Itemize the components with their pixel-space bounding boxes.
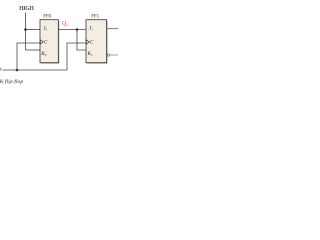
junction dot Q0/K1 branch <box>76 28 79 31</box>
wire HIGH vertical drop to J0/K0 <box>25 13 27 51</box>
wire CLK bottom line <box>3 69 68 71</box>
svg-text:-K flip-flop: -K flip-flop <box>0 78 23 85</box>
flip-flop FF1 body <box>86 20 107 63</box>
wire Q1-bar output <box>110 54 118 56</box>
flip-flop FF0 body <box>40 20 58 63</box>
flip-flop FF0 shadow <box>41 21 59 64</box>
svg-text:FF1: FF1 <box>91 14 99 20</box>
wire J0 input <box>26 29 41 31</box>
wire FF0 clock riser <box>17 43 40 70</box>
junction dot CLK/FF0 riser <box>16 69 19 72</box>
wire K0 input <box>26 49 41 51</box>
junction dot HIGH/J0 <box>24 28 27 31</box>
label CLK fragment at left edge <box>0 68 1 71</box>
wire Q1 output <box>107 28 118 30</box>
wire Q0 branch to K1 <box>77 30 86 51</box>
wire FF1 clock riser <box>67 43 86 70</box>
bubble Q1-bar output <box>107 54 109 56</box>
clock triangle FF1 <box>86 40 89 44</box>
svg-text:HIGH: HIGH <box>19 6 34 12</box>
clock triangle FF0 <box>40 40 43 44</box>
flip-flop FF1 shadow <box>87 21 108 64</box>
background <box>0 0 120 86</box>
wire Q0 output to FF1 <box>59 29 87 31</box>
svg-text:FF0: FF0 <box>43 14 51 20</box>
